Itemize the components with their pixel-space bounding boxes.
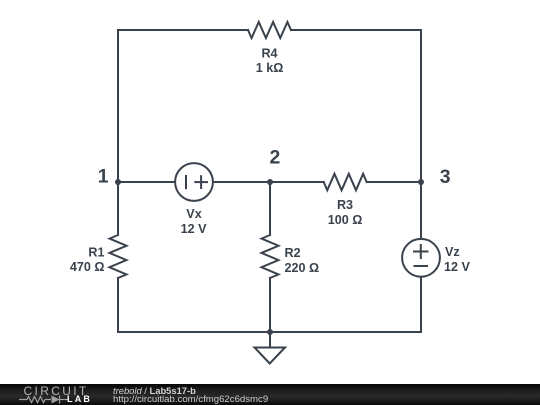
svg-text:R1: R1 (88, 245, 104, 259)
svg-text:1 kΩ: 1 kΩ (256, 61, 284, 75)
wire top-right segment (291, 30, 421, 182)
footer bar (0, 384, 540, 405)
svg-text:R2: R2 (285, 246, 301, 260)
svg-text:12 V: 12 V (444, 260, 471, 274)
footer title line (113, 386, 196, 395)
svg-text:3: 3 (440, 166, 451, 188)
wire R1 to bottom (118, 278, 270, 332)
CircuitLab logo word (24, 385, 89, 397)
wire Vx to node2 (213, 181, 270, 183)
footer url line (113, 395, 268, 405)
svg-text:Vz: Vz (445, 245, 460, 259)
resistor R2 (262, 235, 279, 278)
svg-text:220 Ω: 220 Ω (285, 261, 320, 275)
voltage source Vz (402, 239, 440, 277)
wire node1 to Vx (118, 181, 175, 183)
resistor R3 (324, 174, 367, 190)
svg-text:12 V: 12 V (181, 222, 208, 236)
svg-text:470 Ω: 470 Ω (70, 260, 105, 274)
wire R3 to node3 (367, 181, 421, 183)
node 3 junction dot (418, 179, 424, 185)
svg-text:2: 2 (270, 147, 281, 169)
diode symbol (52, 396, 60, 404)
ground junction dot (267, 329, 273, 335)
svg-text:1: 1 (98, 166, 109, 188)
voltage source Vx (175, 163, 213, 201)
svg-text:R3: R3 (337, 198, 353, 212)
wire node1 down to R1 (117, 182, 119, 235)
ground (269, 332, 271, 348)
wire bottom-right segment (270, 277, 421, 332)
wire R2 to bottom (269, 278, 271, 332)
logo LAB (67, 395, 92, 404)
wire node3 down to Vz (420, 182, 422, 239)
wire node2 down to R2 (269, 182, 271, 235)
wire top-left segment (118, 30, 248, 182)
svg-text:R4: R4 (261, 46, 277, 60)
resistor R1 (110, 235, 127, 278)
node 1 junction dot (115, 179, 121, 185)
svg-text:Vx: Vx (186, 207, 201, 221)
node 2 junction dot (267, 179, 273, 185)
logo circuit line with resistor and diode (19, 394, 69, 405)
wire node2 to R3 (270, 181, 324, 183)
resistor R4 (248, 22, 291, 38)
svg-text:100 Ω: 100 Ω (328, 213, 363, 227)
